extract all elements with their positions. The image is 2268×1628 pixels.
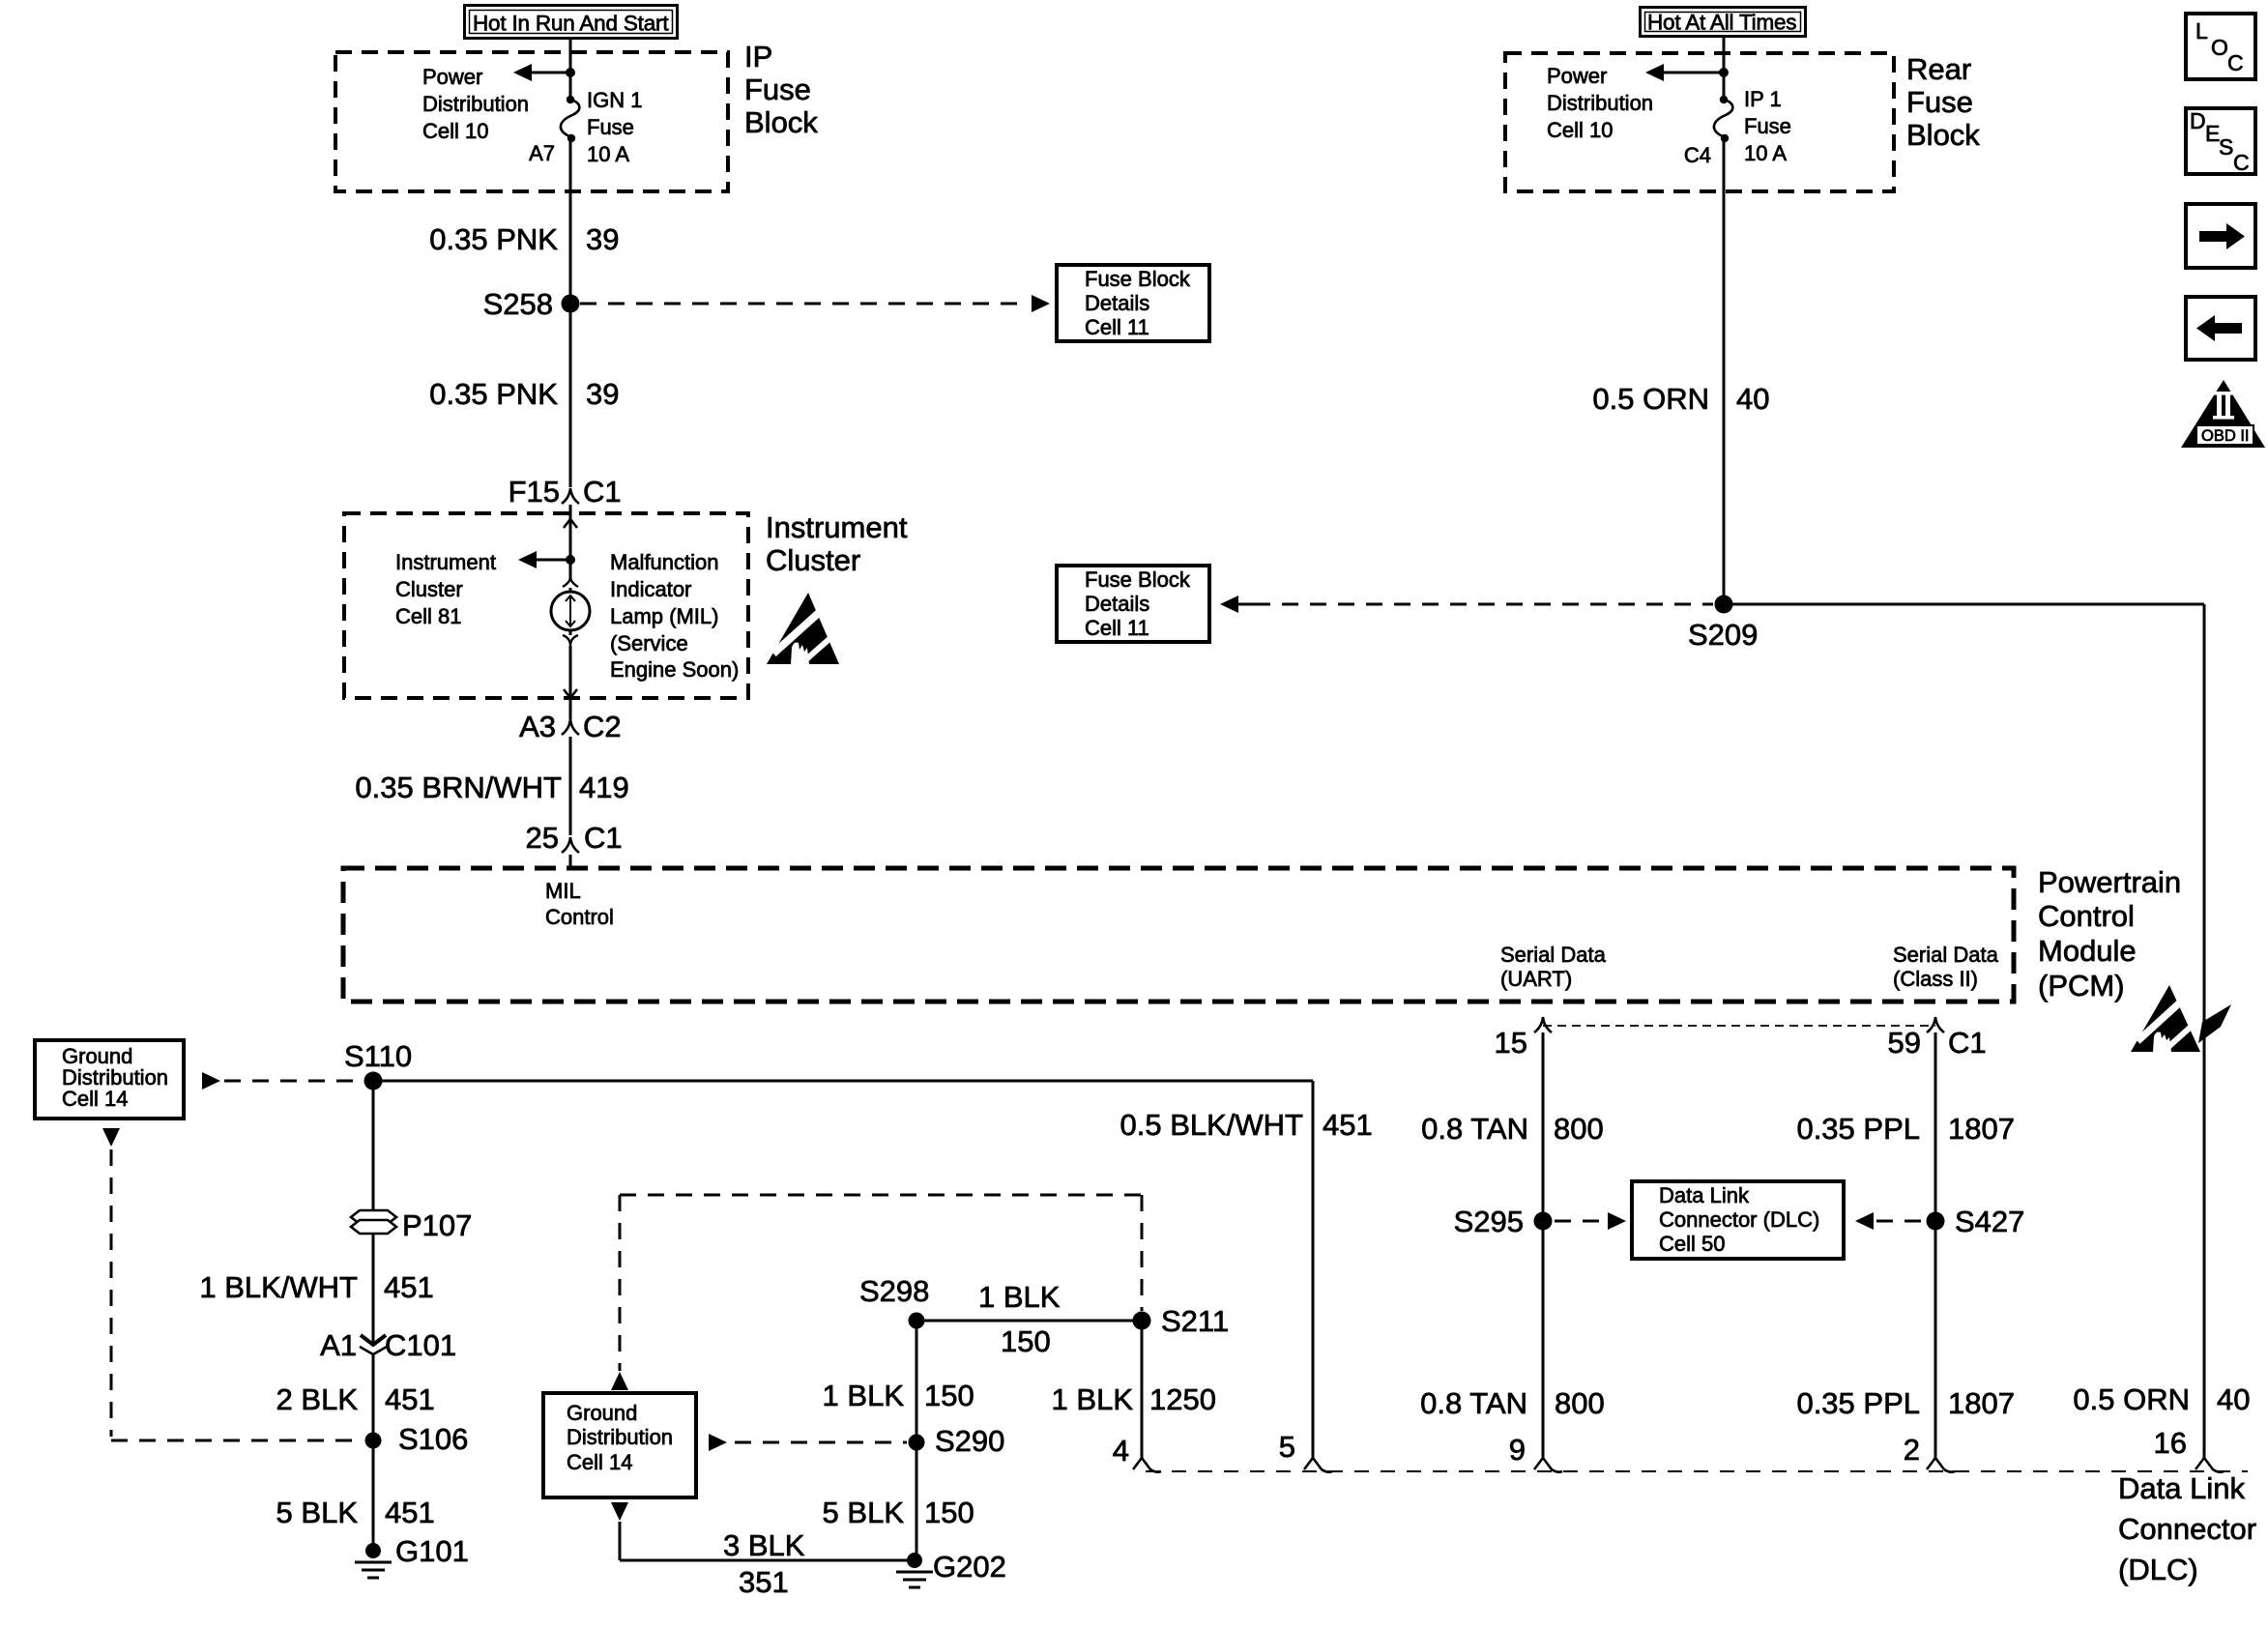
svg-text:0.5 ORN: 0.5 ORN bbox=[1592, 382, 1709, 416]
svg-text:IGN 1: IGN 1 bbox=[587, 88, 642, 112]
svg-text:C2: C2 bbox=[583, 710, 622, 743]
svg-text:0.35 PPL: 0.35 PPL bbox=[1796, 1386, 1920, 1420]
svg-text:1807: 1807 bbox=[1948, 1112, 2015, 1146]
svg-text:(DLC): (DLC) bbox=[2118, 1553, 2198, 1586]
svg-text:451: 451 bbox=[1323, 1108, 1373, 1142]
svg-text:0.5 BLK/WHT: 0.5 BLK/WHT bbox=[1120, 1108, 1304, 1142]
svg-text:Cell 14: Cell 14 bbox=[62, 1087, 128, 1111]
svg-text:1250: 1250 bbox=[1149, 1382, 1216, 1416]
svg-text:S298: S298 bbox=[859, 1274, 929, 1308]
svg-text:Engine Soon): Engine Soon) bbox=[610, 657, 739, 682]
svg-text:16: 16 bbox=[2154, 1426, 2187, 1460]
svg-text:150: 150 bbox=[924, 1496, 974, 1529]
svg-text:Hot In Run And Start: Hot In Run And Start bbox=[473, 12, 669, 36]
svg-text:1807: 1807 bbox=[1948, 1386, 2015, 1420]
svg-text:A3: A3 bbox=[519, 710, 556, 743]
svg-text:3 BLK: 3 BLK bbox=[723, 1528, 805, 1562]
svg-text:Block: Block bbox=[1906, 118, 1980, 152]
svg-text:Module: Module bbox=[2038, 934, 2137, 968]
svg-text:C: C bbox=[2227, 50, 2244, 75]
svg-text:D: D bbox=[2190, 108, 2206, 133]
svg-text:Distribution: Distribution bbox=[422, 92, 529, 116]
svg-text:Powertrain: Powertrain bbox=[2038, 865, 2181, 899]
svg-text:C1: C1 bbox=[583, 475, 622, 509]
svg-text:(PCM): (PCM) bbox=[2038, 969, 2125, 1003]
svg-text:F15: F15 bbox=[509, 475, 560, 509]
svg-text:Indicator: Indicator bbox=[610, 577, 691, 601]
svg-text:5 BLK: 5 BLK bbox=[823, 1496, 905, 1529]
svg-text:Control: Control bbox=[545, 905, 614, 929]
svg-text:2: 2 bbox=[1904, 1433, 1920, 1467]
svg-text:Details: Details bbox=[1085, 291, 1149, 315]
svg-text:OBD II: OBD II bbox=[2201, 427, 2250, 445]
svg-text:800: 800 bbox=[1555, 1386, 1605, 1420]
svg-text:C4: C4 bbox=[1684, 143, 1711, 167]
svg-text:A7: A7 bbox=[529, 141, 555, 165]
svg-text:Data Link: Data Link bbox=[1659, 1183, 1750, 1207]
svg-text:15: 15 bbox=[1495, 1026, 1527, 1060]
svg-text:9: 9 bbox=[1509, 1433, 1526, 1467]
svg-text:Distribution: Distribution bbox=[567, 1425, 673, 1449]
svg-text:150: 150 bbox=[924, 1379, 974, 1412]
svg-text:351: 351 bbox=[739, 1565, 789, 1599]
svg-text:Distribution: Distribution bbox=[1547, 91, 1653, 115]
svg-text:150: 150 bbox=[1001, 1324, 1051, 1358]
svg-text:0.8 TAN: 0.8 TAN bbox=[1420, 1386, 1527, 1420]
svg-text:40: 40 bbox=[2217, 1382, 2250, 1416]
svg-text:IP: IP bbox=[744, 40, 772, 73]
svg-text:Serial Data: Serial Data bbox=[1893, 943, 1999, 967]
svg-text:Fuse Block: Fuse Block bbox=[1085, 567, 1191, 592]
svg-text:10 A: 10 A bbox=[587, 142, 629, 166]
svg-text:Fuse: Fuse bbox=[1744, 114, 1791, 138]
svg-text:(Class II): (Class II) bbox=[1893, 967, 1978, 991]
svg-text:Cell 11: Cell 11 bbox=[1085, 315, 1149, 339]
svg-text:G202: G202 bbox=[933, 1550, 1006, 1584]
svg-text:Cell 14: Cell 14 bbox=[567, 1450, 632, 1474]
svg-text:S258: S258 bbox=[483, 287, 553, 321]
svg-text:451: 451 bbox=[385, 1382, 435, 1416]
svg-text:Block: Block bbox=[744, 105, 818, 139]
svg-text:39: 39 bbox=[586, 222, 619, 256]
svg-text:0.35 PNK: 0.35 PNK bbox=[429, 377, 558, 411]
svg-text:0.35 PNK: 0.35 PNK bbox=[429, 222, 558, 256]
svg-text:39: 39 bbox=[586, 377, 619, 411]
svg-text:C101: C101 bbox=[385, 1328, 456, 1362]
svg-text:451: 451 bbox=[385, 1496, 435, 1529]
svg-text:Serial Data: Serial Data bbox=[1500, 943, 1607, 967]
svg-text:Instrument: Instrument bbox=[395, 550, 496, 574]
svg-text:Fuse: Fuse bbox=[744, 73, 811, 106]
svg-text:S: S bbox=[2219, 134, 2233, 160]
svg-text:Malfunction: Malfunction bbox=[610, 550, 719, 574]
svg-text:S427: S427 bbox=[1955, 1205, 2024, 1238]
svg-text:Hot At All Times: Hot At All Times bbox=[1647, 11, 1796, 35]
svg-text:Rear: Rear bbox=[1906, 52, 1971, 86]
svg-text:L: L bbox=[2195, 18, 2208, 44]
svg-text:S110: S110 bbox=[344, 1039, 412, 1073]
svg-text:Cell 81: Cell 81 bbox=[395, 604, 461, 628]
svg-text:451: 451 bbox=[384, 1270, 434, 1304]
svg-text:25: 25 bbox=[526, 821, 559, 855]
svg-text:800: 800 bbox=[1554, 1112, 1604, 1146]
svg-text:1 BLK: 1 BLK bbox=[978, 1280, 1061, 1314]
svg-text:Cell 50: Cell 50 bbox=[1659, 1232, 1725, 1256]
svg-text:A1: A1 bbox=[320, 1328, 357, 1362]
svg-text:5: 5 bbox=[1279, 1430, 1295, 1464]
svg-text:(Service: (Service bbox=[610, 631, 688, 655]
svg-text:Cell 10: Cell 10 bbox=[1547, 118, 1613, 142]
svg-text:Connector: Connector bbox=[2118, 1512, 2256, 1546]
svg-text:Fuse: Fuse bbox=[1906, 85, 1973, 119]
svg-text:5 BLK: 5 BLK bbox=[276, 1496, 359, 1529]
svg-text:10 A: 10 A bbox=[1744, 141, 1787, 165]
svg-text:P107: P107 bbox=[402, 1208, 472, 1242]
svg-text:G101: G101 bbox=[395, 1534, 469, 1568]
svg-text:O: O bbox=[2211, 35, 2228, 60]
svg-text:4: 4 bbox=[1113, 1434, 1129, 1468]
svg-text:2 BLK: 2 BLK bbox=[276, 1382, 359, 1416]
svg-text:S295: S295 bbox=[1454, 1205, 1524, 1238]
svg-text:Control: Control bbox=[2038, 899, 2135, 933]
svg-text:Cluster: Cluster bbox=[766, 543, 860, 577]
svg-text:S290: S290 bbox=[935, 1424, 1004, 1458]
svg-text:Details: Details bbox=[1085, 592, 1149, 616]
svg-text:MIL: MIL bbox=[545, 879, 581, 903]
svg-text:S106: S106 bbox=[398, 1422, 468, 1456]
svg-text:C1: C1 bbox=[584, 821, 623, 855]
svg-text:Ground: Ground bbox=[567, 1401, 637, 1425]
svg-text:C: C bbox=[2233, 150, 2250, 175]
svg-text:Connector (DLC): Connector (DLC) bbox=[1659, 1207, 1819, 1232]
svg-text:Lamp (MIL): Lamp (MIL) bbox=[610, 604, 718, 628]
svg-text:419: 419 bbox=[579, 770, 629, 804]
svg-text:Power: Power bbox=[422, 65, 482, 89]
svg-text:0.5 ORN: 0.5 ORN bbox=[2073, 1382, 2190, 1416]
svg-text:S211: S211 bbox=[1161, 1304, 1229, 1338]
svg-text:Cluster: Cluster bbox=[395, 577, 463, 601]
svg-text:(UART): (UART) bbox=[1500, 967, 1572, 991]
svg-text:1 BLK: 1 BLK bbox=[823, 1379, 905, 1412]
svg-text:IP 1: IP 1 bbox=[1744, 87, 1782, 111]
svg-text:Instrument: Instrument bbox=[766, 510, 908, 544]
svg-text:59: 59 bbox=[1888, 1026, 1921, 1060]
svg-text:0.35 PPL: 0.35 PPL bbox=[1796, 1112, 1920, 1146]
svg-text:C1: C1 bbox=[1948, 1026, 1987, 1060]
svg-text:S209: S209 bbox=[1688, 618, 1758, 652]
svg-text:Power: Power bbox=[1547, 64, 1607, 88]
svg-text:Cell 11: Cell 11 bbox=[1085, 616, 1149, 640]
svg-text:1 BLK: 1 BLK bbox=[1052, 1382, 1134, 1416]
svg-text:Data Link: Data Link bbox=[2118, 1471, 2245, 1505]
svg-text:Fuse: Fuse bbox=[587, 115, 634, 139]
svg-text:Cell 10: Cell 10 bbox=[422, 119, 488, 143]
svg-text:0.35 BRN/WHT: 0.35 BRN/WHT bbox=[355, 770, 562, 804]
svg-text:0.8 TAN: 0.8 TAN bbox=[1421, 1112, 1528, 1146]
svg-text:1 BLK/WHT: 1 BLK/WHT bbox=[199, 1270, 358, 1304]
svg-text:40: 40 bbox=[1736, 382, 1769, 416]
svg-text:Fuse Block: Fuse Block bbox=[1085, 267, 1191, 291]
